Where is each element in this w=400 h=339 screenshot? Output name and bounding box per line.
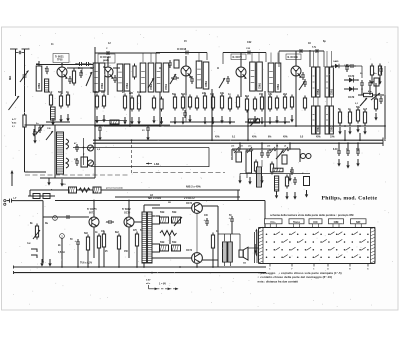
rail drop d9 (169, 236, 171, 244)
box H3 (33, 194, 40, 199)
rail drop d3 (87, 252, 89, 267)
stage2 trimmer arrow (148, 78, 154, 88)
resistor R35 (135, 232, 138, 249)
svg-text:C50Ω: C50Ω (331, 89, 333, 95)
ground G6 (123, 117, 126, 125)
svg-text:2k2: 2k2 (283, 93, 288, 96)
coil box L10 (203, 62, 209, 89)
ground G16 (268, 117, 271, 125)
svg-text:O.L.: O.L. (270, 220, 276, 224)
wire Q1 collector up (61, 64, 63, 67)
module dots (239, 148, 291, 150)
keyboard left arrow (255, 229, 257, 257)
vertical drop v6 (264, 91, 266, 126)
trimmer arrow over R36 (174, 217, 182, 226)
rail end tick upper (13, 266, 15, 269)
extra resistor E7 (275, 96, 278, 111)
wire ground rail stage2 (95, 124, 160, 126)
ground G1 (51, 118, 54, 126)
module winding W2 (257, 167, 262, 187)
connector inner speck labels (276, 234, 365, 259)
switch SW1 diagonal (371, 93, 380, 100)
antenna A1 left T-bar (10, 49, 18, 57)
extra cap E13 (168, 60, 172, 68)
trimmer arrow stage1 (86, 72, 92, 86)
wire det out (358, 94, 384, 96)
svg-text:C50Ω: C50Ω (166, 84, 168, 90)
keyboard switch strokes (275, 232, 365, 258)
capacitor C5 series (104, 51, 112, 55)
extra cap E10 (113, 75, 117, 83)
wire Q4 emitter (240, 77, 242, 97)
wire stage4 top rail (223, 52, 266, 54)
coil L15 two loops (301, 154, 306, 159)
supply bus upper line (93, 139, 383, 141)
IF transformer T3 box b (257, 62, 263, 91)
svg-text:6%: 6% (268, 137, 271, 139)
resistor R18 (245, 97, 248, 113)
ground G3 (66, 114, 69, 122)
ground arrow G33 onto rail (48, 259, 51, 267)
ground G5 (102, 115, 105, 123)
wire Q2 emitter (107, 77, 109, 95)
svg-text:50Ω: 50Ω (172, 212, 177, 214)
resistor R31 (86, 235, 89, 253)
wire long mid rail y126 (95, 125, 385, 127)
ground G35 (33, 136, 36, 144)
detector wire x385 down (384, 66, 386, 95)
detector wire x362 down (361, 66, 363, 78)
resistor R17 (228, 96, 231, 112)
detector diode D4 (335, 64, 339, 68)
transistor Q2 label frame (98, 54, 115, 63)
coil box L12 (275, 63, 281, 92)
capacitor C18 (75, 158, 79, 166)
wire caps to bus (338, 143, 340, 148)
component value labels top section (49, 40, 368, 111)
wire Q9 collector to OT (202, 259, 218, 261)
wire T8 top lead (143, 205, 145, 212)
svg-text:O OC18: O OC18 (177, 48, 187, 51)
scan noise speckles (4, 30, 393, 307)
coil box L7 (124, 64, 130, 91)
transistor Q1 label frame (53, 54, 69, 63)
wire stage4 rail ends (222, 53, 224, 65)
hatched resistor R37 (172, 217, 181, 223)
coil box L5 (99, 63, 105, 91)
coil L4 hatched below (51, 107, 56, 120)
wire line y197 segment (115, 196, 240, 198)
module extra wire w2 (299, 149, 301, 162)
svg-text:C55Ω: C55Ω (331, 126, 333, 132)
extra resistor E4 (195, 96, 198, 111)
svg-text:L84: L84 (154, 162, 160, 166)
trimmer C16 (38, 125, 42, 133)
keyboard bottom ticks (270, 264, 368, 267)
capacitor C8 series (245, 51, 253, 55)
svg-text:OM: OM (334, 220, 339, 224)
wire Q8 collector to OT (202, 205, 218, 207)
capacitor C14 below bus (346, 148, 350, 156)
resistor R19 (260, 95, 263, 112)
svg-text:o6: o6 (284, 146, 286, 148)
electrolytic C2 (45, 66, 49, 74)
detector cap C29 (345, 64, 349, 72)
IF transformer T1 box a (140, 63, 146, 92)
vertical drop v3 (159, 92, 161, 126)
box M2 tall (246, 151, 252, 173)
resistor R7 (95, 94, 98, 110)
resistor R26 (363, 110, 366, 126)
transistor Q7 (124, 217, 134, 227)
detector wire v12 (369, 88, 371, 95)
resistor R9 (123, 94, 126, 111)
extra resistor E2 (160, 97, 163, 112)
svg-text:schema della tastiera vista da: schema della tastiera vista dalla parte … (270, 213, 354, 217)
module extra box M3 (282, 155, 287, 164)
antenna coupling capacitor (16, 51, 25, 54)
capacitor C30 with ground (33, 129, 37, 137)
wire module top rail (232, 148, 300, 150)
detector top wire y66 (331, 65, 362, 67)
key button MF (351, 219, 367, 228)
rail end tick lower (13, 271, 15, 274)
ground G11 (203, 117, 206, 125)
wire osc bottom rail (40, 177, 95, 179)
svg-text:C56Ω: C56Ω (259, 83, 261, 89)
wire ground rail stage1 (46, 121, 70, 123)
svg-text:N. OC169: N. OC169 (288, 57, 299, 59)
capacitor C3b series (84, 62, 92, 66)
detector trimmer arrow 2 (360, 98, 367, 106)
detector cap Cc (379, 66, 383, 74)
wire stage5 rail ends (278, 51, 280, 67)
hatched box H1 on line (69, 187, 77, 193)
wire Q8 base (152, 207, 192, 209)
svg-text:C55Ω: C55Ω (318, 89, 320, 95)
output transformer T9 secondary winding (228, 242, 233, 262)
AF drop from bus (276, 143, 278, 171)
detector resistor Rb (378, 64, 381, 78)
IF transformer T7 box b (330, 106, 334, 134)
IF transformer T5 box a (325, 67, 329, 97)
svg-text:OA79: OA79 (348, 75, 355, 78)
svg-text:C56Ω: C56Ω (318, 126, 320, 132)
keyboard block outline (259, 228, 376, 264)
coil L1 box (36, 66, 42, 91)
resistor R33 (102, 232, 105, 250)
IF transformer T5 box b (330, 67, 334, 97)
wire Q7 emitter (128, 227, 130, 258)
volume pot R30 (35, 224, 38, 240)
capacitor C13 below bus (337, 148, 341, 156)
wire T8 taps (152, 215, 160, 217)
circled ref 1 (53, 216, 58, 221)
wire Q5 collector (295, 51, 297, 66)
ground G20 (356, 125, 359, 133)
detector ground Ga (370, 77, 373, 85)
switch SW3 (276, 151, 283, 159)
extra box E14 (174, 60, 179, 68)
stub wires box tops to rail (143, 51, 332, 106)
coupling loop L14a (66, 139, 69, 149)
extra ground E2g (160, 117, 163, 125)
resistor R1 below rod (23, 113, 26, 130)
detector series cap Cb (348, 64, 356, 68)
svg-text:10k: 10k (94, 91, 99, 94)
key button OC (309, 219, 322, 228)
svg-text:0,9V: 0,9V (146, 280, 151, 282)
svg-text:C88Ω: C88Ω (278, 84, 280, 90)
svg-text:220: 220 (129, 92, 134, 95)
label L84 (146, 163, 152, 165)
extra ground E1g (152, 116, 155, 124)
ground G29 (248, 177, 251, 185)
hatched resistor R40 (172, 245, 181, 251)
extra cap E9 (68, 76, 72, 84)
svg-text:C58Ω: C58Ω (127, 83, 129, 89)
resistor R20 (268, 95, 271, 112)
junction dots on bus and rails (42, 50, 361, 273)
hatched box H2 on line (93, 187, 101, 193)
wire Q5 emitter (295, 76, 297, 95)
module drop to dash d1 (245, 162, 247, 173)
svg-text:N/B 2 x 40%: N/B 2 x 40% (186, 185, 201, 189)
capacitor C6 series (183, 51, 191, 55)
tuning capacitor C1 with arrow (23, 72, 27, 80)
wire L1 top to rail (38, 61, 40, 66)
coil L8 horizontal (110, 120, 119, 124)
wire q3 emitter net (185, 95, 187, 122)
wire Q4 collector (240, 53, 242, 68)
oscillator value labels (36, 123, 101, 191)
extra ground E6g (253, 116, 256, 124)
wire line y190 (30, 189, 240, 191)
resistor R2 (72, 69, 75, 86)
wire det column down (375, 83, 377, 96)
svg-text:580: 580 (58, 91, 63, 94)
AF resistor R44 (285, 175, 288, 189)
input terminal J1 (4, 200, 6, 202)
svg-text:OA79: OA79 (344, 64, 350, 67)
wire drop x265 to output (264, 201, 266, 249)
extra cap E12 (303, 79, 307, 87)
extra ground E8g (290, 115, 293, 123)
extra cap E11 (226, 76, 230, 84)
svg-text:○ contatto chiuso della parte: ○ contatto chiuso della parte del montag… (258, 275, 333, 279)
svg-text:45%: 45% (252, 136, 257, 139)
ground G22 (337, 159, 340, 167)
wire C30 stub (34, 125, 36, 129)
rail drop d5 (103, 249, 105, 267)
coil L3 box (93, 63, 99, 92)
transistor Q4 (236, 67, 247, 80)
wire Q6 emitter (93, 227, 95, 258)
zigzag resistor R29 (79, 188, 90, 192)
svg-text:C88Ω: C88Ω (206, 81, 208, 87)
svg-text:TU6 x 9,5V: TU6 x 9,5V (80, 262, 92, 265)
svg-text:b11: b11 (240, 146, 243, 148)
coil box L6 (117, 64, 123, 91)
extra ground E7g (275, 116, 278, 124)
rail drop d1 (61, 238, 63, 267)
IF transformer T6 box b (316, 106, 320, 134)
vertical drop v9 (344, 130, 346, 141)
switch contact K2 (31, 255, 37, 258)
keyboard left end cap hatched (259, 227, 264, 264)
extra resistor E5 (236, 95, 239, 110)
pot wiper arrow (250, 118, 258, 126)
svg-text:4n7: 4n7 (363, 108, 368, 111)
ground G36 (98, 133, 101, 141)
ground arrow G32 onto rail (40, 259, 43, 267)
resistor R3 (49, 93, 52, 108)
cap C34 (183, 110, 187, 118)
pot wiper (33, 230, 40, 239)
ground G24 (356, 159, 359, 167)
capacitor C21 (266, 150, 270, 158)
svg-text:Philips, mod. Colette: Philips, mod. Colette (322, 195, 378, 201)
rail drop d7 (136, 248, 138, 267)
feedback line y147 (73, 147, 209, 149)
ground G13 (220, 116, 223, 124)
vertical drop v4 (211, 89, 213, 141)
stage1 wire dots (81, 67, 83, 69)
detector ground Gb (378, 77, 381, 85)
svg-text:TF08: TF08 (57, 60, 63, 62)
stage1 hang wire (81, 68, 83, 74)
ground G27 osc (60, 179, 63, 187)
vertical drop v1 (94, 47, 96, 126)
wire drop x238 (237, 190, 239, 201)
ferrite rod frame (16, 57, 25, 112)
wire Q6 collector to top line (93, 201, 95, 218)
svg-text:45%: 45% (316, 136, 321, 139)
wire feedback line y200 (55, 200, 265, 202)
box H4 (43, 194, 50, 199)
ground G7 (130, 117, 133, 125)
svg-text:OC75: OC75 (124, 211, 131, 214)
ground G14 (228, 117, 231, 125)
svg-text:OA85: OA85 (333, 60, 339, 63)
detector dot j2 (361, 88, 363, 90)
capacitor C15 below bus (356, 148, 360, 156)
output transformer T9 primary winding (223, 242, 228, 262)
transistor Q8 (192, 203, 203, 214)
vertical drop v8 (309, 50, 311, 67)
stage3 small cap extra (190, 76, 194, 84)
svg-text:30n: 30n (356, 149, 361, 151)
wire stage3 top rail (156, 52, 207, 54)
stage5 small cap extra (301, 72, 305, 80)
module corner vertical x209 (208, 148, 210, 168)
ground G2 (59, 115, 62, 123)
transistor Q1 (57, 67, 68, 80)
rail drop d6 (118, 251, 120, 267)
keyboard contact dot grid (266, 234, 369, 258)
band switch contact group 2 (267, 145, 289, 154)
padder box C19 (81, 157, 88, 167)
wire module drops from bus (239, 143, 241, 149)
svg-text:47k: 47k (268, 93, 273, 96)
resistor R23 (338, 110, 341, 126)
resistor R10 (130, 96, 133, 112)
extra resistor E3 (188, 95, 191, 110)
ground G28 (238, 176, 241, 184)
diode D3 detector (344, 87, 358, 92)
wire Q9 base (152, 257, 192, 259)
svg-text:MF: MF (356, 220, 360, 224)
capacitor C20 (260, 150, 264, 158)
svg-text:10k: 10k (220, 92, 225, 95)
ground G21 (363, 127, 366, 135)
stage5 trimmer arrow (299, 81, 305, 90)
rail drop d11 (212, 250, 214, 267)
variable cap VC1 circle (88, 145, 94, 151)
ground G25 (32, 129, 35, 137)
variable cap VC2 circle (88, 160, 94, 166)
svg-text:C88Ω: C88Ω (39, 83, 41, 89)
key button Tono (289, 219, 304, 228)
hatched resistor R36 (160, 217, 169, 223)
key button OM (329, 219, 344, 228)
oscillator coil L13 winding (57, 132, 64, 174)
transistor Q6 (89, 217, 99, 227)
capacitor C10 series (313, 49, 321, 53)
capacitor C17 (75, 144, 79, 152)
module drop to dash d2 (255, 171, 257, 173)
module extra wire w1 (231, 149, 233, 160)
wire Q3 collector (185, 56, 187, 66)
transistor Q5 label frame (286, 54, 301, 60)
svg-text:2 x OC72: 2 x OC72 (184, 197, 195, 200)
osc feed vertical x83 (83, 138, 85, 165)
ground G12 (211, 117, 214, 125)
tuning arrow ganged (9, 96, 20, 110)
coupling loop L14b (66, 158, 69, 168)
bus end terminal (382, 138, 384, 147)
svg-text:C56Ω: C56Ω (151, 84, 153, 90)
diode D1 tuning (170, 74, 176, 84)
IF transformer T7 box a (325, 106, 329, 134)
svg-text:5k6: 5k6 (181, 93, 186, 96)
resistor R16 (220, 94, 223, 111)
vertical drop v2 (129, 91, 131, 126)
svg-text:C56Ω: C56Ω (102, 83, 104, 89)
capacitor C23 (64, 215, 72, 219)
wire Q7 to driver transformer (134, 221, 142, 223)
IF transformer T3 box a (250, 62, 256, 91)
svg-text:50n: 50n (172, 93, 177, 96)
resistor R42 det extra (374, 97, 377, 112)
speaker LS1 (239, 247, 248, 260)
svg-text:Tr 8021: Tr 8021 (55, 55, 64, 58)
diode D2 detector (344, 78, 358, 83)
wire stage1 output rail (67, 67, 96, 69)
feedback line y166 (91, 166, 209, 168)
svg-text:presa incrociata: presa incrociata (106, 187, 124, 190)
electrolytic C26 (205, 218, 209, 226)
module hatched resistor R45 (273, 168, 283, 172)
AF box B3 (304, 177, 310, 186)
vertical drop v10 (359, 133, 361, 141)
svg-text:22k: 22k (202, 92, 207, 95)
IF transformer T4 box b (316, 67, 320, 97)
ground G26 osc (47, 178, 50, 186)
capacitor C9 series (297, 49, 305, 53)
AGC arrow left margin (11, 170, 14, 186)
tick numbers under connector (269, 268, 369, 271)
